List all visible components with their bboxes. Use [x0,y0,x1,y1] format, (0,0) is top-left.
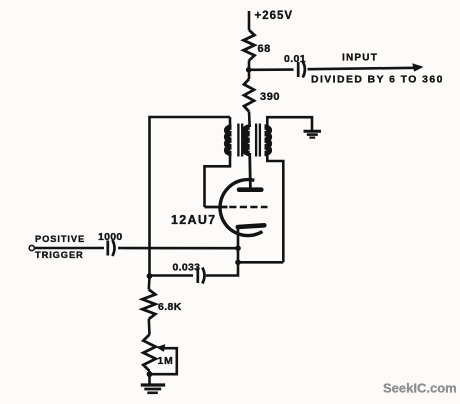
svg-text:INPUT: INPUT [342,53,378,64]
node positive trigger terminal [29,245,34,250]
arrowhead input [412,63,423,71]
svg-text:TRIGGER: TRIGGER [35,250,84,260]
resistor 68 [244,30,255,61]
vacuum tube U1 12AU7 envelope [220,180,262,236]
ground (top right) [304,130,322,133]
svg-text:68: 68 [258,43,271,55]
capacitor 1000 [106,241,109,256]
transformer primary (left winding) [227,127,232,154]
tube grid (dashed) [205,206,228,209]
ground (bottom) [141,383,165,386]
svg-text:1000: 1000 [98,231,123,243]
wire input line [249,68,294,71]
wire plate lead [248,153,251,188]
transformer core laminations [237,124,239,157]
node +265V supply [248,11,251,30]
wire left winding bottom lead [205,153,232,207]
wire right winding bottom lead [265,153,284,262]
svg-text:12AU7: 12AU7 [171,213,216,227]
wire to transformer secondary [238,261,283,264]
svg-text:0.033: 0.033 [173,262,201,274]
node junction pot bottom [147,371,153,377]
svg-text:SeekIC.com: SeekIC.com [383,381,457,396]
wire [148,374,151,384]
wire [248,112,251,128]
svg-text:0.01: 0.01 [284,53,306,65]
svg-text:+265V: +265V [255,10,294,22]
svg-text:DIVIDED BY 6 TO 360: DIVIDED BY 6 TO 360 [311,75,444,86]
node junction grid-loop/0.033/6.8K [147,273,153,279]
svg-text:POSITIVE: POSITIVE [35,234,85,244]
node junction B+/input [246,67,252,73]
capacitor 0.033 [196,268,199,283]
wire [248,61,251,71]
wire left winding top lead [230,117,232,128]
resistor 390 [248,70,251,79]
svg-text:1M: 1M [158,355,174,367]
wire right winding top lead [265,117,313,130]
tube cathode [238,225,264,227]
potentiometer 1M [143,335,155,372]
svg-text:390: 390 [260,91,280,103]
resistor 6.8K [148,276,151,290]
wire [148,319,151,335]
transformer center winding [245,127,250,154]
wire [237,248,240,262]
wire riser to 0.033 line [206,262,238,275]
wire grid-return loop (left winding top to cathode resistor) [150,117,231,276]
tube plate (anode) [239,187,261,192]
wiper arm of 1M pot [150,348,177,374]
wire trigger line [35,247,105,250]
node cathode junction (secondary return) [235,260,241,266]
svg-text:6.8K: 6.8K [158,301,182,313]
transformer secondary (right winding) [265,127,270,154]
node cathode junction (trigger) [235,245,241,251]
wire cathode lead [237,227,240,248]
capacitor 0.01 [297,62,300,77]
